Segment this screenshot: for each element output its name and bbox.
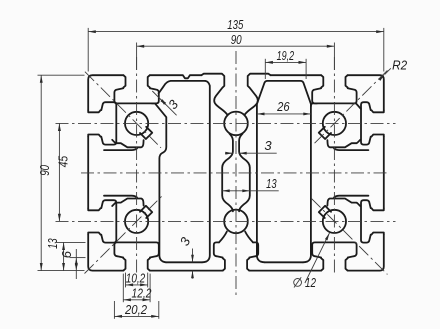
central screw-port circle top <box>224 112 248 136</box>
profile bottom edge T-slot at column 22.5 <box>114 242 158 270</box>
svg-text:26: 26 <box>276 99 290 114</box>
extension lines left dims <box>38 74 85 76</box>
extension lines for dim 135 <box>87 28 89 72</box>
profile outer corner top-left <box>88 75 123 110</box>
svg-text:90: 90 <box>37 164 52 176</box>
profile bottom surface between c3 slot and capsule <box>249 270 321 272</box>
profile right edge between slots <box>383 137 385 209</box>
dimension 90 top <box>137 45 335 47</box>
centerline column 67.5 <box>235 51 237 295</box>
profile top edge T-slot at column 22.5 <box>114 75 158 103</box>
dimension 135 top <box>88 31 384 33</box>
extension lines bottom slot dims <box>125 273 127 288</box>
extension lines for dim 19.2 <box>264 59 266 79</box>
profile left edge between slots <box>87 137 89 209</box>
channel neck left wall <box>222 134 233 212</box>
svg-text:20,2: 20,2 <box>124 302 148 317</box>
web right row2 <box>327 199 360 207</box>
profile left edge T-slot row 67.5 <box>88 200 116 242</box>
diagonal centerline bottom-left <box>85 196 163 274</box>
profile top surface from central lip to groove-90 area <box>271 74 322 76</box>
svg-text:6: 6 <box>59 250 74 258</box>
corner boss hole bottom-right <box>323 210 346 233</box>
diagonal centerline top-right <box>313 70 387 144</box>
extension lines for dim 90 top <box>136 43 138 71</box>
chamber-45 left wall with step <box>152 103 167 262</box>
dimension 26 <box>257 113 311 115</box>
centerline column 22.5 <box>136 57 138 276</box>
chamber-90 ceiling with shoulders <box>257 81 311 104</box>
web left row2 <box>112 199 143 207</box>
dimension 6 left <box>75 249 77 279</box>
capsule outer wall left <box>202 81 210 262</box>
svg-text:3: 3 <box>264 138 272 153</box>
svg-text:45: 45 <box>55 155 70 167</box>
central screw-port circle bottom <box>224 210 248 234</box>
dimension 13 left <box>63 242 65 270</box>
dimension 19.2 <box>265 61 306 63</box>
channel exit throat to bottom slot <box>219 232 227 243</box>
dimension 3 top-left wall <box>152 91 176 115</box>
svg-text:135: 135 <box>227 17 244 32</box>
dimension 90 left <box>40 75 42 270</box>
dimension 3 central neck <box>225 152 233 154</box>
web right row1 <box>327 140 360 148</box>
centerline mid height <box>81 172 390 174</box>
corner boss hole bottom-left <box>125 210 148 233</box>
profile right edge T-slot row 67.5 <box>361 200 384 242</box>
capsule outer wall right / chamber-90 left wall <box>257 104 265 262</box>
svg-text:90: 90 <box>231 32 243 47</box>
chamber-45 floor <box>166 261 202 263</box>
profile left edge T-slot row 22.5 <box>88 102 116 144</box>
corner boss hole top-right <box>323 112 346 135</box>
profile top surface to top-right corner <box>348 75 384 110</box>
chamber-90 right wall <box>303 104 311 262</box>
slot c3 cavity corner slopes <box>311 103 317 106</box>
dimension 20.2 bottom <box>114 315 158 317</box>
svg-text:12,2: 12,2 <box>132 285 153 300</box>
chamber-90 floor <box>265 261 303 263</box>
svg-text:12: 12 <box>305 275 317 290</box>
profile top edge T-slot at column 112.5 <box>312 75 356 103</box>
profile outer corner bottom-right <box>348 235 384 271</box>
dimension 3 bottom web <box>192 249 194 263</box>
profile bottom edge T-slot at column 112.5 <box>312 242 356 270</box>
dimension 12.2 bottom <box>123 299 150 301</box>
centerline column 112.5 <box>333 57 335 276</box>
dimension 13 central channel <box>222 190 279 192</box>
svg-text:10,2: 10,2 <box>126 271 146 286</box>
svg-text:13: 13 <box>266 176 277 191</box>
central channel top entrance right lip <box>245 74 271 115</box>
profile right edge T-slot row 22.5 <box>361 102 384 144</box>
diameter label 12 with leader <box>305 233 330 283</box>
central channel top entrance left lip <box>201 74 227 115</box>
diagonal centerline bottom-right <box>311 198 387 274</box>
svg-text:13: 13 <box>45 238 60 249</box>
profile bottom edge T-slot under central channel <box>214 242 258 270</box>
centerline row 67.5 <box>56 220 396 222</box>
profile top surface between slots with marker notch <box>150 75 202 78</box>
profile outer corner bottom-left <box>88 235 123 271</box>
chamber-45 ceiling <box>159 81 206 94</box>
dimension 45 left <box>58 123 60 221</box>
svg-text:19,2: 19,2 <box>277 48 295 63</box>
dimension 10.2 bottom <box>126 284 148 286</box>
channel neck right wall <box>239 134 250 212</box>
radius label R2 with leader <box>385 68 391 74</box>
corner boss hole top-left <box>125 112 148 135</box>
web left row1 <box>112 140 143 148</box>
profile bottom surface between capsule and c1 slot <box>150 270 223 272</box>
diagonal centerline top-left <box>85 72 161 148</box>
centerline row 22.5 <box>56 122 396 124</box>
svg-text:R2: R2 <box>392 58 408 73</box>
